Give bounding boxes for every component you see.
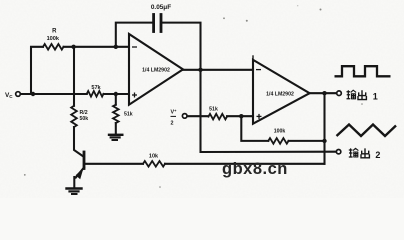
svg-text:100k: 100k	[274, 129, 286, 135]
svg-text:100k: 100k	[47, 36, 60, 42]
svg-text:1/4 LM2902: 1/4 LM2902	[266, 91, 294, 97]
svg-text:51k: 51k	[209, 106, 218, 112]
svg-text:10k: 10k	[149, 154, 159, 160]
svg-text:2: 2	[171, 120, 174, 126]
svg-text:2: 2	[375, 150, 380, 160]
svg-text:R: R	[52, 28, 57, 34]
svg-text:57k: 57k	[91, 85, 101, 91]
svg-text:51k: 51k	[124, 111, 133, 117]
svg-text:gbx8.cn: gbx8.cn	[222, 160, 288, 178]
svg-text:50k: 50k	[80, 116, 89, 122]
svg-text:0.05μF: 0.05μF	[151, 4, 171, 11]
svg-text:1: 1	[373, 91, 378, 101]
svg-text:1/4 LM2902: 1/4 LM2902	[142, 67, 170, 73]
